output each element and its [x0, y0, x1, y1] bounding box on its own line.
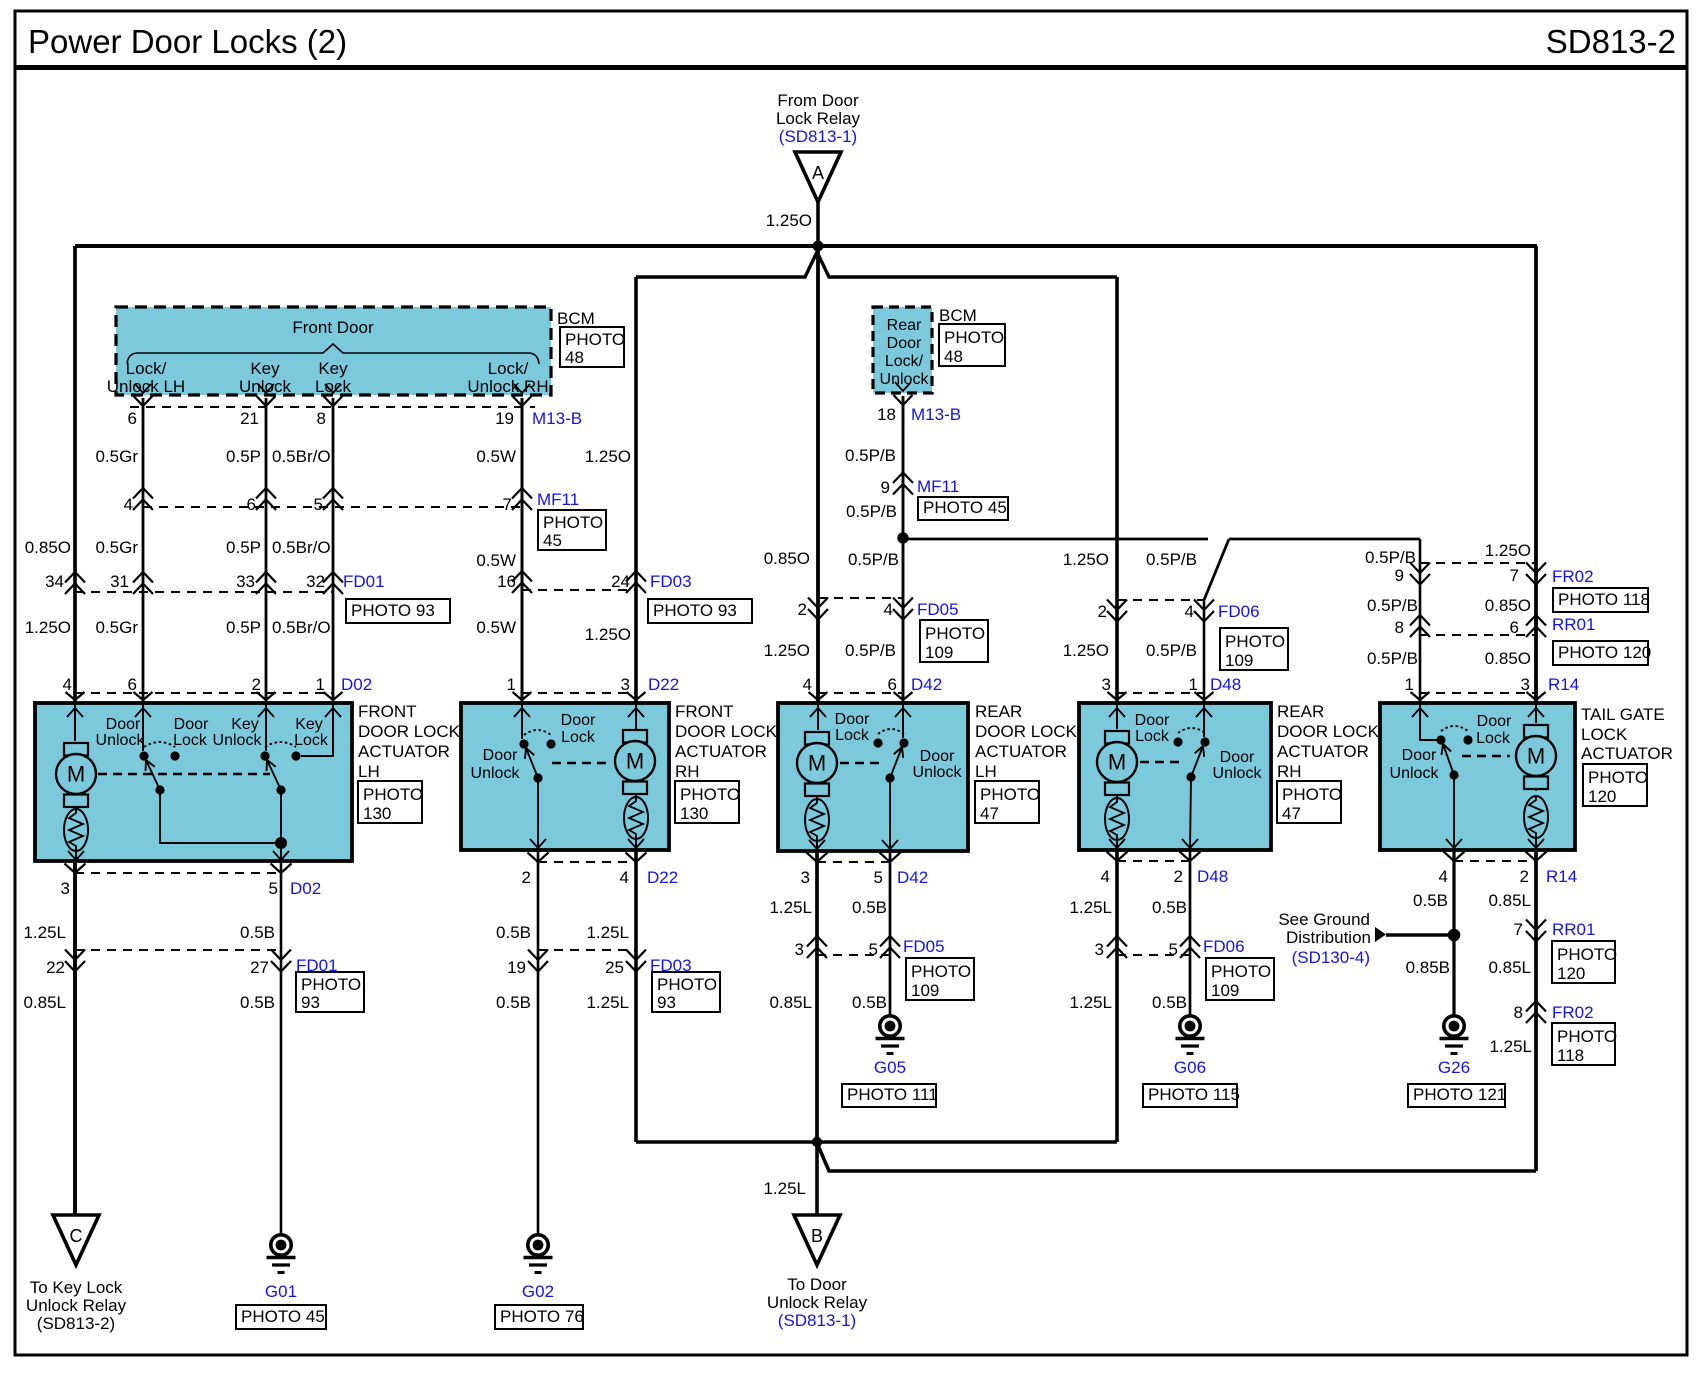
- svg-text:ACTUATOR: ACTUATOR: [675, 742, 767, 761]
- connector D22 top: [507, 675, 680, 700]
- photo box FD06 bottom: [1206, 958, 1274, 1000]
- wire A to bus: [816, 202, 820, 246]
- box3 wire pin4 to motor: [817, 703, 819, 730]
- svg-text:8: 8: [1395, 618, 1404, 637]
- junction node 0.5P/B: [897, 532, 908, 543]
- svg-text:FD05: FD05: [903, 937, 945, 956]
- svg-text:Unlock: Unlock: [1213, 765, 1263, 782]
- label 0.5P/B r3 (x1204): [1146, 641, 1197, 660]
- svg-text:Unlock Relay: Unlock Relay: [767, 1293, 868, 1312]
- svg-text:Power Door Locks (2): Power Door Locks (2): [28, 23, 347, 60]
- switch4 contacts: [1173, 728, 1209, 747]
- svg-text:Key: Key: [318, 359, 348, 378]
- mech link dashed box2: [552, 762, 612, 764]
- svg-text:0.85B: 0.85B: [1406, 958, 1450, 977]
- photo box FR02 bottom: [1552, 1023, 1617, 1065]
- wire 0.5P/B down to FR02: [1419, 539, 1422, 703]
- svg-text:Lock/: Lock/: [126, 359, 167, 378]
- box3 wire motor to bottom: [816, 841, 818, 851]
- svg-text:25: 25: [605, 958, 624, 977]
- label 0.5B (G05 col): [852, 898, 887, 917]
- box3 inner top chevrons: [810, 708, 911, 717]
- box2 wire motor to bottom: [635, 839, 637, 850]
- svg-text:PHOTO 121: PHOTO 121: [1413, 1085, 1506, 1104]
- svg-text:4: 4: [803, 675, 812, 694]
- svg-text:Unlock RH: Unlock RH: [467, 377, 548, 396]
- box4 inner top chevrons: [1109, 708, 1212, 717]
- box1 inner top chevron x143: [135, 708, 151, 717]
- label FR02 top: [1552, 567, 1594, 586]
- label Key Lock switch: [315, 359, 351, 396]
- svg-text:120: 120: [1557, 964, 1585, 983]
- switch3 lever: [890, 747, 903, 778]
- label 0.85O r2 left: [25, 538, 71, 557]
- ground G05: [876, 1016, 905, 1054]
- svg-text:1: 1: [1189, 675, 1198, 694]
- switch2 contacts: [519, 730, 555, 749]
- label 0.5B (G06 col): [1152, 898, 1187, 917]
- svg-text:To Door: To Door: [787, 1275, 847, 1294]
- svg-text:0.5P: 0.5P: [226, 447, 261, 466]
- connector FD01 bottom: [46, 950, 338, 978]
- connector D22 bottom: [522, 853, 679, 888]
- svg-text:M13-B: M13-B: [532, 409, 582, 428]
- label BCM (front): [557, 309, 595, 328]
- svg-text:D42: D42: [897, 868, 928, 887]
- FD01 pin 33: [236, 572, 255, 591]
- svg-text:PHOTO: PHOTO: [1211, 962, 1271, 981]
- svg-text:7: 7: [1510, 566, 1519, 585]
- connector MF11 dashed line: [143, 506, 522, 508]
- photo box G06: [1143, 1084, 1240, 1107]
- label Door Unlock box5: [1390, 747, 1440, 782]
- box1 junction node: [155, 785, 287, 849]
- svg-text:PHOTO: PHOTO: [980, 785, 1040, 804]
- resistor PTC3: [805, 797, 829, 841]
- wire 0.5P/B horizontal: [903, 538, 1208, 541]
- svg-text:0.85L: 0.85L: [23, 993, 66, 1012]
- RR01 pin 6: [1510, 618, 1519, 637]
- photo box FD05 top: [920, 620, 988, 662]
- switch key unlock/lock contacts: [260, 742, 300, 761]
- motor M4 (rear RH): [1097, 731, 1137, 795]
- M13-B pin 19: [495, 409, 514, 428]
- svg-text:4: 4: [1439, 867, 1448, 886]
- MF11 pin 4: [124, 495, 133, 514]
- svg-text:Lock: Lock: [173, 732, 208, 749]
- label 0.5B 2 (G01 col): [240, 993, 275, 1012]
- svg-text:FD06: FD06: [1218, 602, 1260, 621]
- ground G02: [524, 1235, 553, 1273]
- svg-text:0.5P: 0.5P: [226, 538, 261, 557]
- label Door Unlock box3: [913, 748, 963, 781]
- svg-text:2: 2: [252, 675, 261, 694]
- FR02 pin 9: [1395, 566, 1404, 585]
- label See Ground Distribution: [1278, 910, 1371, 967]
- BCM front box inner bottom chevrons: [135, 384, 530, 393]
- svg-text:8: 8: [1514, 1003, 1523, 1022]
- BCM rear box inner bottom chevron: [895, 382, 911, 391]
- box5 inner bottom arrows: [1446, 839, 1544, 848]
- label 0.5P/B below junction: [848, 550, 899, 569]
- svg-text:0.5Gr: 0.5Gr: [95, 538, 138, 557]
- wire 1.25L x1117 bottom: [1115, 850, 1119, 1142]
- label 0.5Gr r1: [95, 447, 138, 466]
- svg-text:RH: RH: [1277, 762, 1302, 781]
- label Door Lock sw1: [173, 716, 209, 749]
- connector RR01 bottom: [1514, 920, 1596, 942]
- svg-text:1.25L: 1.25L: [769, 898, 812, 917]
- svg-text:PHOTO: PHOTO: [657, 975, 717, 994]
- wire 1.25L x636 bottom: [634, 848, 638, 1142]
- svg-text:REAR: REAR: [975, 702, 1022, 721]
- svg-text:120: 120: [1588, 787, 1616, 806]
- svg-text:PHOTO 93: PHOTO 93: [653, 601, 737, 620]
- connector FD03 dashed line: [522, 589, 636, 591]
- svg-text:130: 130: [363, 804, 391, 823]
- svg-text:93: 93: [657, 993, 676, 1012]
- motor M5 (tail gate): [1516, 725, 1556, 789]
- svg-text:Door: Door: [887, 335, 922, 352]
- svg-text:LH: LH: [358, 762, 380, 781]
- label Door Unlock box4: [1213, 749, 1263, 782]
- svg-text:1.25O: 1.25O: [1485, 541, 1531, 560]
- svg-text:Unlock: Unlock: [471, 765, 521, 782]
- connector FD05 dashed line: [818, 597, 903, 599]
- connector FR02 top chevron x1536: [1526, 563, 1546, 585]
- FD06 pin 2: [1098, 602, 1107, 621]
- connector D48 top: [1102, 675, 1242, 700]
- photo box actuator4: [1277, 781, 1342, 823]
- svg-text:Unlock Relay: Unlock Relay: [26, 1296, 127, 1315]
- svg-text:Lock: Lock: [1135, 728, 1170, 745]
- svg-text:DOOR LOCK: DOOR LOCK: [975, 722, 1078, 741]
- box2 wire pin1 to contact: [521, 703, 523, 739]
- FD05 pin 4: [884, 600, 893, 619]
- FD03 pin 24: [611, 572, 630, 591]
- svg-text:D42: D42: [911, 675, 942, 694]
- svg-text:LOCK: LOCK: [1581, 725, 1628, 744]
- svg-text:4: 4: [124, 495, 133, 514]
- svg-text:Unlock: Unlock: [880, 371, 930, 388]
- FD06 pin 4: [1185, 602, 1194, 621]
- connector M13-B pin chevron x522: [513, 396, 532, 406]
- svg-text:0.5Br/O: 0.5Br/O: [272, 618, 331, 637]
- label M13-B (front): [532, 409, 582, 428]
- svg-text:Door: Door: [1477, 713, 1512, 730]
- resistor PTC5: [1524, 789, 1548, 838]
- connector MF11 chevron x333: [323, 488, 343, 510]
- label 0.5Br/O r2: [272, 538, 331, 557]
- box1 wire pin4 to motor: [74, 703, 76, 741]
- label 0.5P/B mid right: [1367, 596, 1418, 615]
- wire left 0.85O column: [73, 246, 77, 1215]
- svg-text:G02: G02: [522, 1282, 554, 1301]
- svg-text:M13-B: M13-B: [911, 405, 961, 424]
- svg-text:9: 9: [881, 478, 890, 497]
- label Door Unlock sw1: [96, 716, 146, 749]
- FR02 pin 7: [1510, 566, 1519, 585]
- svg-text:48: 48: [944, 347, 963, 366]
- actuator box FRONT DOOR LOCK ACTUATOR RH: [461, 703, 669, 850]
- svg-text:Door: Door: [561, 712, 596, 729]
- svg-text:24: 24: [611, 572, 630, 591]
- label 0.5B (G26 col): [1413, 891, 1448, 910]
- M13-B pin 6: [128, 409, 137, 428]
- svg-text:0.85O: 0.85O: [1485, 649, 1531, 668]
- label 0.5W r3: [476, 618, 516, 637]
- wire bottom return right: [817, 1143, 1536, 1171]
- svg-text:M: M: [626, 749, 644, 774]
- svg-text:PHOTO: PHOTO: [1557, 1027, 1617, 1046]
- label 1.25O r3 (x1117): [1063, 641, 1109, 660]
- wire see-ground to G26 col: [1386, 933, 1454, 936]
- motor M2 (front RH): [615, 730, 655, 794]
- label REAR DOOR LOCK ACTUATOR RH: [1277, 702, 1380, 781]
- label M13-B (rear): [911, 405, 961, 424]
- svg-text:Lock: Lock: [1476, 730, 1511, 747]
- svg-text:Key: Key: [295, 716, 323, 733]
- svg-text:G06: G06: [1174, 1058, 1206, 1077]
- label Door Lock box5: [1476, 713, 1512, 747]
- svg-text:0.5B: 0.5B: [496, 993, 531, 1012]
- svg-text:0.5P/B: 0.5P/B: [845, 641, 896, 660]
- svg-text:0.5B: 0.5B: [1152, 898, 1187, 917]
- wire 1.25L A column bottom: [815, 851, 819, 1142]
- wire 0.5P column: [265, 398, 268, 703]
- box1 inner top chevron x266: [258, 708, 274, 717]
- svg-text:(SD813-1): (SD813-1): [779, 127, 857, 146]
- svg-text:0.5P/B: 0.5P/B: [848, 550, 899, 569]
- label Key Unlock switch: [239, 359, 291, 396]
- svg-text:19: 19: [507, 958, 526, 977]
- label 0.5P/B r2 (FR02 feed): [1365, 548, 1416, 567]
- connector FD05 top chevron x903: [893, 598, 913, 620]
- svg-text:ACTUATOR: ACTUATOR: [1581, 744, 1673, 763]
- ground G26: [1440, 1016, 1469, 1054]
- svg-text:B: B: [811, 1226, 823, 1246]
- label 1.25L (x636): [586, 923, 629, 942]
- photo box G02: [495, 1305, 584, 1329]
- svg-text:34: 34: [45, 572, 64, 591]
- connector M13-B dashed line: [130, 406, 535, 408]
- connector R14 top: [1405, 675, 1580, 700]
- connector FD01 chevron x266: [256, 572, 276, 594]
- svg-text:PHOTO 45: PHOTO 45: [923, 498, 1007, 517]
- title Power Door Locks (2): [28, 23, 347, 60]
- junction node on bus: [813, 241, 824, 252]
- svg-text:RR01: RR01: [1552, 615, 1595, 634]
- label 0.5B 2 (G05 col): [852, 993, 887, 1012]
- label 1.25O r3 (x636): [585, 625, 631, 644]
- photo box MF11 rear: [918, 497, 1008, 520]
- switch3 pivot dot: [885, 773, 894, 782]
- mech link dashed box1: [98, 773, 270, 775]
- svg-text:TAIL GATE: TAIL GATE: [1581, 705, 1665, 724]
- svg-text:0.85L: 0.85L: [1488, 958, 1531, 977]
- photo box actuator2: [675, 781, 740, 823]
- title SD813-2: [1546, 23, 1676, 60]
- wire 0.5P/B x1204 to D48: [1203, 600, 1206, 703]
- box1 switch output wires: [160, 790, 281, 861]
- connector FR02 top chevron x1420: [1410, 563, 1430, 585]
- M13-B pin 21: [240, 409, 259, 428]
- svg-text:Unlock: Unlock: [213, 732, 263, 749]
- label TAIL GATE LOCK ACTUATOR: [1581, 705, 1673, 763]
- label Key Unlock sw2: [213, 716, 263, 749]
- photo box FD01 bottom: [296, 972, 364, 1012]
- svg-text:MF11: MF11: [917, 477, 959, 496]
- svg-text:D02: D02: [341, 675, 372, 694]
- svg-text:2: 2: [1174, 867, 1183, 886]
- label 1.25L 2 (x636): [586, 993, 629, 1012]
- connector FD05 top chevron x818: [808, 598, 828, 620]
- svg-text:Lock Relay: Lock Relay: [776, 109, 861, 128]
- svg-text:DOOR LOCK: DOOR LOCK: [1277, 722, 1380, 741]
- label MF11 (rear): [917, 477, 959, 496]
- resistor PTC2: [624, 794, 648, 839]
- label 0.5P/B r3 rear: [845, 641, 896, 660]
- svg-text:1.25O: 1.25O: [25, 618, 71, 637]
- svg-text:1.25L: 1.25L: [1069, 993, 1112, 1012]
- mech link dashed box5: [1462, 755, 1510, 757]
- svg-text:32: 32: [306, 572, 325, 591]
- svg-text:5: 5: [869, 940, 878, 959]
- svg-text:0.5P/B: 0.5P/B: [1367, 649, 1418, 668]
- label To Door Unlock Relay: [767, 1275, 868, 1330]
- svg-text:FD06: FD06: [1203, 937, 1245, 956]
- actuator box REAR DOOR LOCK ACTUATOR LH: [778, 703, 968, 851]
- junction node bottom: [812, 1137, 822, 1147]
- label Door Lock box4: [1135, 712, 1170, 745]
- FD01 pin 32: [306, 572, 325, 591]
- connector FD03 bottom: [507, 950, 692, 978]
- connector FD01 chevron x143: [133, 572, 153, 594]
- label FD01 top: [343, 572, 385, 591]
- svg-text:0.85O: 0.85O: [1485, 596, 1531, 615]
- svg-text:PHOTO 76: PHOTO 76: [500, 1307, 584, 1326]
- label 0.5Br/O r3: [272, 618, 331, 637]
- label FRONT DOOR LOCK ACTUATOR LH: [358, 702, 461, 781]
- box4 wire motor to bottom: [1116, 840, 1118, 850]
- svg-text:Front Door: Front Door: [292, 318, 374, 337]
- label 1.25O r2 (x1117): [1063, 550, 1109, 569]
- label 0.5P r2: [226, 538, 261, 557]
- switch5 contacts: [1436, 726, 1472, 745]
- wire 1.25O column (x636): [634, 277, 638, 703]
- label FRONT DOOR LOCK ACTUATOR RH: [675, 702, 778, 781]
- connector RR01 top chevron x1420: [1410, 615, 1430, 637]
- svg-text:Door: Door: [174, 716, 209, 733]
- svg-text:M: M: [1108, 750, 1126, 775]
- label 1.25L (right col): [1489, 1037, 1532, 1056]
- svg-text:0.5Gr: 0.5Gr: [95, 618, 138, 637]
- svg-text:6: 6: [128, 675, 137, 694]
- svg-text:3: 3: [61, 879, 70, 898]
- ground G06: [1176, 1016, 1205, 1054]
- svg-text:PHOTO 118: PHOTO 118: [1558, 590, 1650, 609]
- FD03 pin 16: [497, 572, 516, 591]
- svg-text:27: 27: [250, 958, 269, 977]
- photo box FR02 top: [1553, 588, 1650, 612]
- wire main bus: [75, 244, 1537, 248]
- M13-B pin 18: [877, 405, 896, 424]
- label 1.25O r1: [585, 447, 631, 466]
- svg-text:1.25L: 1.25L: [23, 923, 66, 942]
- svg-text:PHOTO: PHOTO: [543, 513, 603, 532]
- svg-text:Key: Key: [250, 359, 280, 378]
- svg-text:109: 109: [925, 643, 953, 662]
- svg-text:2: 2: [522, 868, 531, 887]
- label Door Lock box3: [835, 711, 870, 744]
- wire 1.25L left bottom: [73, 861, 77, 1215]
- photo box BCM front: [560, 327, 625, 367]
- label 0.85O mid right: [1485, 596, 1531, 615]
- box5 wire pin3 to motor: [1535, 703, 1537, 723]
- connector FD05 bottom: [795, 936, 945, 959]
- label 0.5P/B r2 rear: [846, 502, 897, 521]
- svg-text:16: 16: [497, 572, 516, 591]
- label To Key Lock Unlock Relay: [26, 1278, 127, 1333]
- label From Door Lock Relay: [776, 91, 861, 146]
- svg-text:(SD130-4): (SD130-4): [1292, 948, 1370, 967]
- svg-text:1.25O: 1.25O: [1063, 641, 1109, 660]
- photo box FD01 top: [346, 599, 450, 623]
- svg-text:0.5B: 0.5B: [852, 898, 887, 917]
- motor M1 (front LH): [56, 743, 96, 807]
- svg-text:FRONT: FRONT: [358, 702, 417, 721]
- svg-text:From Door: From Door: [777, 91, 859, 110]
- svg-text:0.85L: 0.85L: [1488, 891, 1531, 910]
- svg-text:1.25L: 1.25L: [1489, 1037, 1532, 1056]
- switch4 lever: [1191, 746, 1204, 777]
- box4 wire pin3 to motor: [1116, 703, 1118, 729]
- svg-text:2: 2: [798, 600, 807, 619]
- svg-text:0.5P/B: 0.5P/B: [846, 502, 897, 521]
- svg-text:FR02: FR02: [1552, 1003, 1594, 1022]
- photo box MF11 front: [538, 510, 606, 550]
- photo box FD05 bottom: [906, 958, 974, 1000]
- label 0.85L (right col): [1488, 891, 1531, 910]
- svg-text:0.5B: 0.5B: [1413, 891, 1448, 910]
- label 0.5Gr r2: [95, 538, 138, 557]
- svg-text:Distribution: Distribution: [1286, 928, 1371, 947]
- svg-text:PHOTO 115: PHOTO 115: [1148, 1085, 1240, 1104]
- wire 0.85L right column bottom: [1534, 850, 1538, 1171]
- svg-text:3: 3: [621, 675, 630, 694]
- label 0.5P r3: [226, 618, 261, 637]
- label Lock/Unlock RH switch: [467, 359, 548, 396]
- svg-text:1: 1: [316, 675, 325, 694]
- MF11 pin 5: [314, 495, 323, 514]
- svg-text:FD01: FD01: [343, 572, 385, 591]
- svg-text:45: 45: [543, 531, 562, 550]
- resistor PTC4: [1105, 796, 1129, 840]
- connector FD01 dashed line: [75, 591, 333, 593]
- svg-text:47: 47: [980, 804, 999, 823]
- label 0.5P/B r2 (diag): [1146, 550, 1197, 569]
- connector M13-B pin chevron x266: [257, 396, 276, 406]
- svg-text:0.5P: 0.5P: [226, 618, 261, 637]
- label 1.25L (left): [23, 923, 66, 942]
- connector D02 bottom: [61, 864, 322, 899]
- box2 switch output wire: [537, 778, 539, 850]
- label FD03 top: [650, 572, 692, 591]
- label 0.85B (G26 col): [1406, 958, 1450, 977]
- svg-text:93: 93: [301, 993, 320, 1012]
- svg-text:6: 6: [128, 409, 137, 428]
- wire 0.5P/B rear column: [902, 396, 905, 703]
